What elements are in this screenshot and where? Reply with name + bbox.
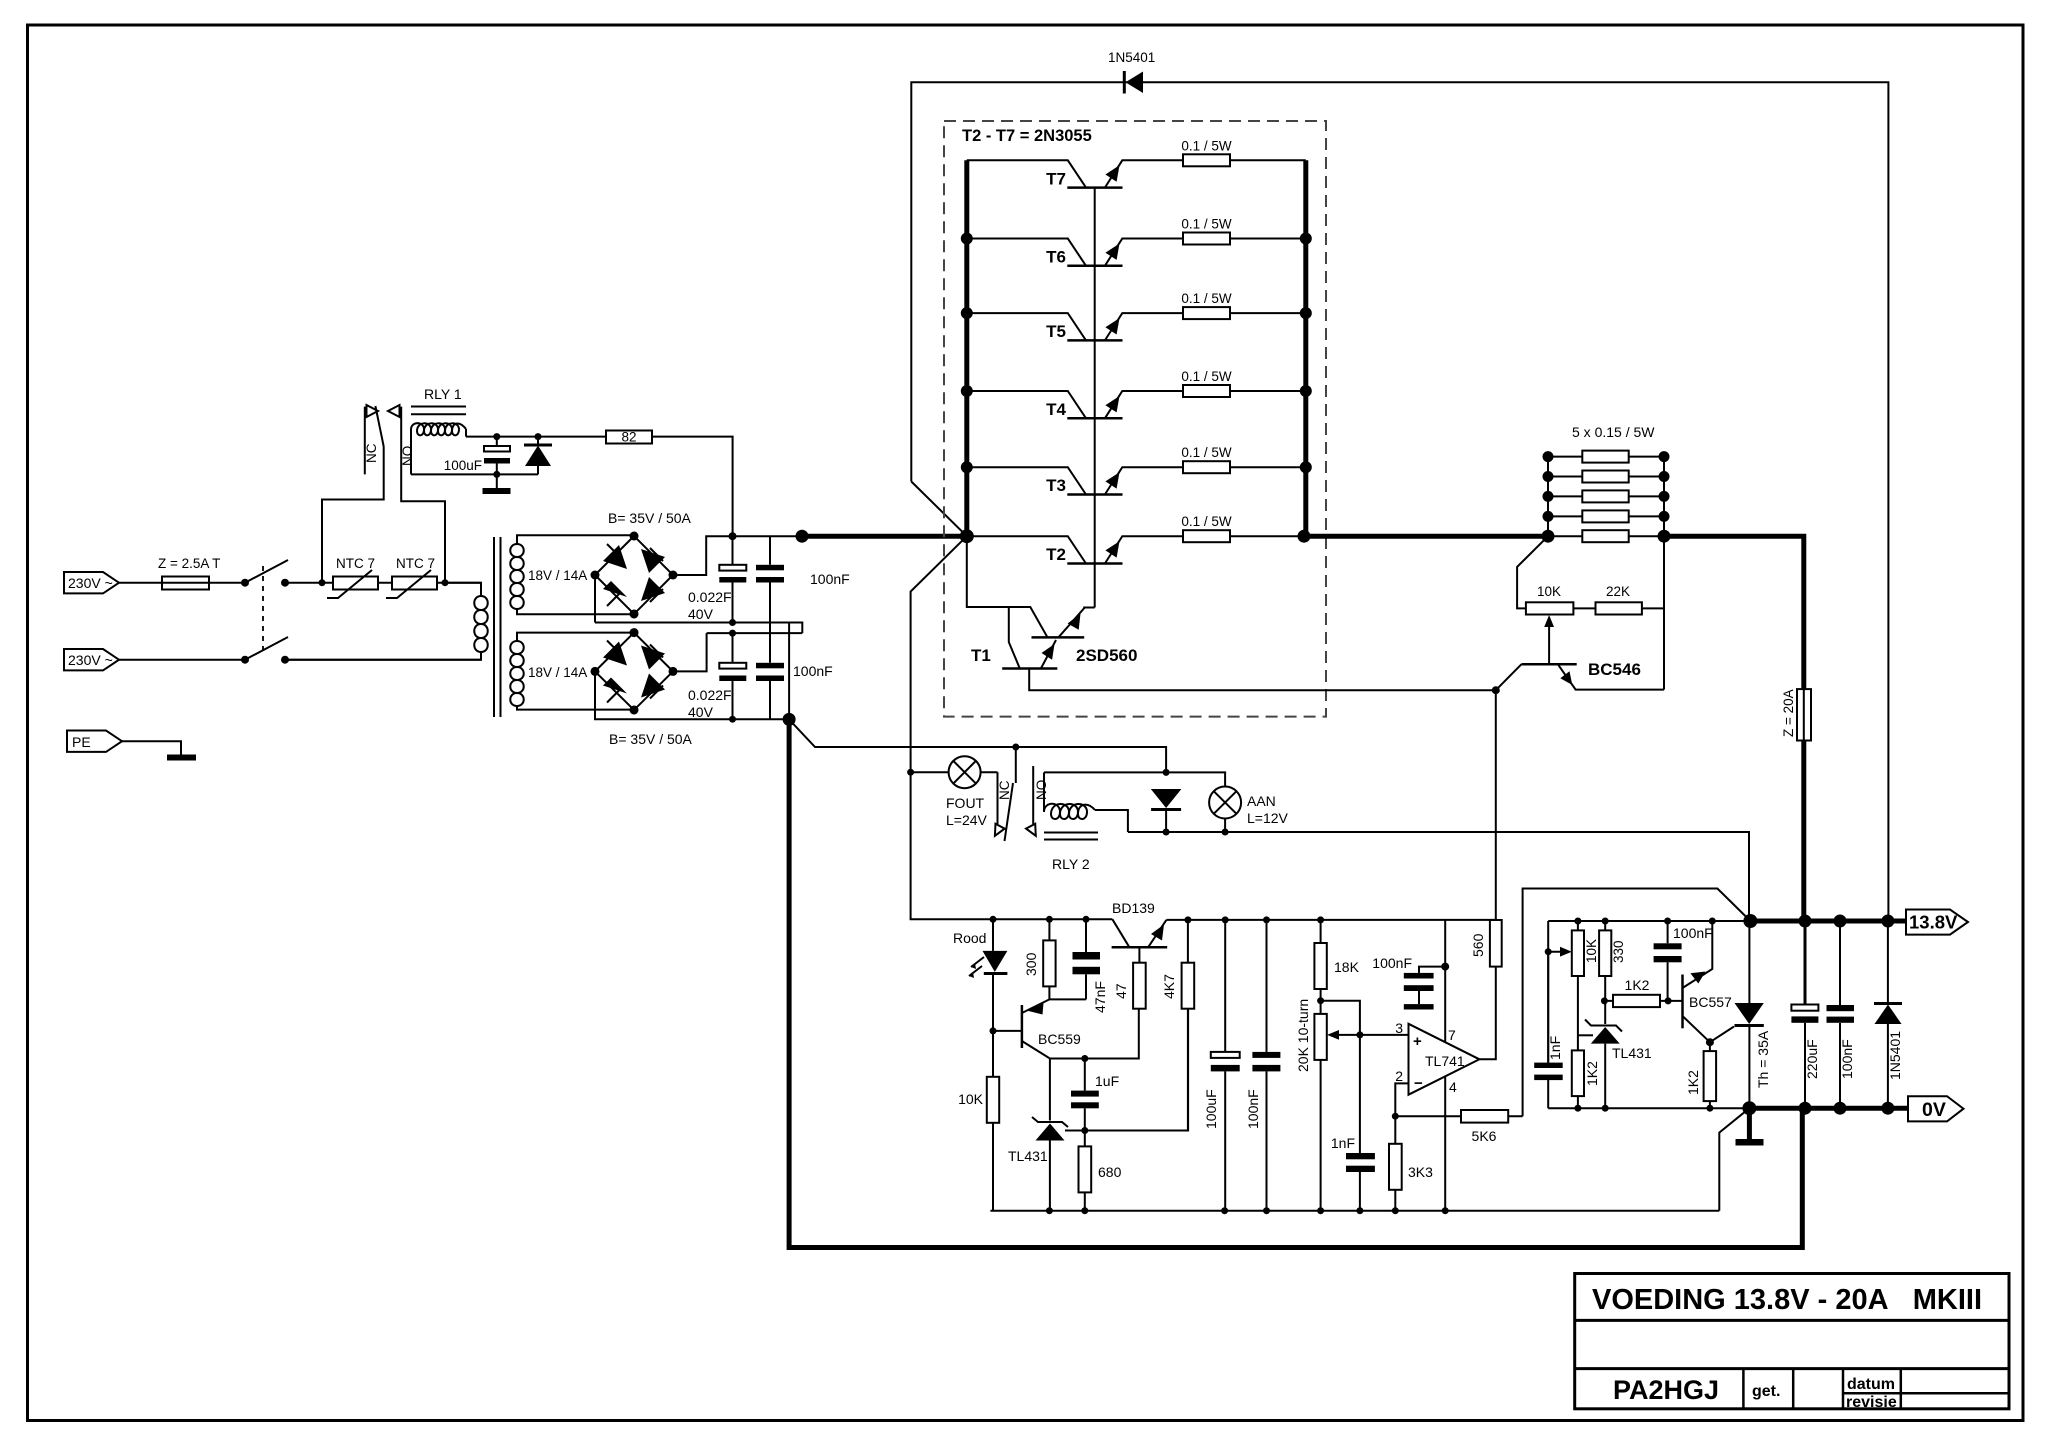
capacitor 100nF (output) bbox=[1827, 921, 1856, 1108]
wire BD139 emitter rail bbox=[1166, 919, 1495, 921]
svg-text:3K3: 3K3 bbox=[1408, 1164, 1433, 1180]
svg-text:BC559: BC559 bbox=[1038, 1031, 1081, 1047]
svg-text:0.022F: 0.022F bbox=[688, 589, 732, 605]
svg-text:T6: T6 bbox=[1046, 248, 1066, 267]
transformer primary winding bbox=[285, 583, 488, 660]
transistor T3 2N3055 bbox=[967, 467, 1183, 495]
svg-text:NC: NC bbox=[997, 780, 1012, 800]
transistor T6 2N3055 bbox=[967, 239, 1183, 267]
svg-text:0.1 / 5W: 0.1 / 5W bbox=[1181, 217, 1232, 232]
wire bridge2 minus rail bbox=[595, 671, 789, 722]
node 0V tag bbox=[1908, 1096, 1964, 1121]
wire pin4 to ground rail bbox=[1444, 1077, 1446, 1211]
svg-text:Rood: Rood bbox=[953, 930, 986, 946]
svg-text:1uF: 1uF bbox=[1095, 1073, 1119, 1089]
svg-text:RLY 2: RLY 2 bbox=[1052, 856, 1090, 872]
node LED / BC559 base junction bbox=[990, 1027, 997, 1034]
svg-text:NO: NO bbox=[400, 446, 415, 466]
resistor 3K3 bbox=[1389, 1116, 1433, 1211]
node 1K2 / 100nF junction bbox=[1665, 997, 1672, 1004]
svg-text:220uF: 220uF bbox=[1804, 1039, 1820, 1079]
wire RLY1 coil common rail bbox=[411, 471, 538, 478]
fuse Z=2.5A T bbox=[158, 556, 220, 590]
potentiometer 10K (limit) bbox=[1526, 584, 1574, 664]
svg-text:4K7: 4K7 bbox=[1161, 974, 1177, 999]
wire 0V sense line to RLY2 common bbox=[789, 719, 1166, 772]
resistor bank 5 x 0.15/5W bbox=[1542, 424, 1671, 543]
wire PE to ground bbox=[122, 741, 181, 754]
resistor 0.1/5W (T5 emitter) bbox=[1181, 291, 1305, 319]
node 0V star junction bbox=[783, 713, 796, 726]
wire collector bus (thick left) bbox=[964, 160, 969, 536]
capacitor 100nF #2 bbox=[756, 633, 833, 719]
node 230V~ L2 tag bbox=[64, 649, 119, 670]
wire thick output bus to sense bank bbox=[1304, 534, 1548, 539]
thyristor Th=35A bbox=[1710, 921, 1771, 1108]
capacitor 220uF (output) bbox=[1791, 921, 1820, 1108]
svg-text:datum: datum bbox=[1847, 1376, 1895, 1393]
capacitor 100uF (RLY1) bbox=[444, 433, 510, 488]
wire mains L1 bbox=[119, 582, 481, 584]
node BC557 collector / gate junction bbox=[1706, 1038, 1714, 1046]
svg-text:680: 680 bbox=[1098, 1164, 1122, 1180]
node raw plus junction bbox=[729, 530, 809, 543]
svg-text:FOUT: FOUT bbox=[946, 795, 985, 811]
svg-text:AAN: AAN bbox=[1247, 793, 1276, 809]
svg-text:T7: T7 bbox=[1046, 169, 1066, 188]
svg-text:L=12V: L=12V bbox=[1247, 810, 1289, 826]
svg-text:47: 47 bbox=[1113, 983, 1129, 999]
wire thick 0V bus bbox=[789, 719, 1802, 1247]
svg-text:10K: 10K bbox=[1584, 939, 1599, 963]
svg-text:0.1 / 5W: 0.1 / 5W bbox=[1181, 514, 1232, 529]
wire top protection loop bbox=[911, 82, 1888, 921]
wire current limit divider bbox=[1517, 536, 1664, 689]
diode RLY2 flyback bbox=[1151, 789, 1182, 832]
shunt regulator TL431 (left) bbox=[1008, 1059, 1068, 1211]
ground op-amp cap bbox=[1404, 1004, 1434, 1009]
wire wiper to pin3 bbox=[1356, 1031, 1408, 1038]
svg-text:230V ~: 230V ~ bbox=[68, 575, 113, 591]
svg-text:1nF: 1nF bbox=[1547, 1036, 1563, 1060]
svg-text:0.1 / 5W: 0.1 / 5W bbox=[1181, 291, 1232, 306]
node PE tag bbox=[67, 731, 122, 752]
svg-text:NC: NC bbox=[364, 443, 379, 463]
svg-text:PA2HGJ: PA2HGJ bbox=[1613, 1375, 1719, 1405]
ground PE bbox=[167, 755, 196, 761]
svg-text:0V: 0V bbox=[1922, 1099, 1946, 1121]
wire thick plus bus to pass transistors bbox=[802, 534, 967, 539]
wire thick output bus to fuse bbox=[1664, 536, 1804, 921]
wire pin7 supply bbox=[1441, 920, 1449, 1042]
transformer secondary 1 (18V/14A) bbox=[510, 535, 634, 614]
transformer TR1 core bbox=[494, 537, 501, 717]
wire mains L2 bbox=[119, 659, 481, 661]
svg-text:Z = 20A: Z = 20A bbox=[1781, 689, 1796, 737]
capacitor 1nF (right) bbox=[1534, 948, 1563, 1108]
svg-text:100uF: 100uF bbox=[444, 458, 482, 473]
capacitor 1uF bbox=[1071, 1059, 1119, 1131]
svg-text:7: 7 bbox=[1448, 1027, 1456, 1043]
svg-text:1K2: 1K2 bbox=[1625, 977, 1650, 993]
svg-text:revisie: revisie bbox=[1846, 1394, 1897, 1411]
wire bridge1 minus rail A bbox=[595, 575, 802, 633]
svg-text:18K: 18K bbox=[1334, 959, 1360, 975]
resistor 300 bbox=[1023, 916, 1056, 1000]
svg-text:TL431: TL431 bbox=[1008, 1148, 1048, 1164]
transistor BC557 bbox=[1683, 918, 1733, 1043]
svg-text:NO: NO bbox=[1034, 780, 1049, 800]
resistor 82 bbox=[606, 430, 652, 445]
svg-text:NTC 7: NTC 7 bbox=[396, 556, 435, 571]
svg-text:Z = 2.5A T: Z = 2.5A T bbox=[158, 556, 220, 571]
resistor 330 bbox=[1599, 918, 1626, 1001]
transistor T7 2N3055 bbox=[967, 160, 1183, 188]
relay RLY1 contact NO bbox=[388, 405, 415, 466]
svg-text:B= 35V / 50A: B= 35V / 50A bbox=[609, 731, 693, 747]
resistor 18K bbox=[1314, 916, 1359, 1014]
junction dots row T4 bbox=[961, 385, 1312, 397]
svg-text:10K: 10K bbox=[958, 1091, 984, 1107]
relay RLY2 contact NO and common bbox=[1005, 747, 1050, 841]
svg-text:3: 3 bbox=[1395, 1020, 1403, 1036]
svg-text:100nF: 100nF bbox=[1245, 1089, 1261, 1129]
potentiometer 20K 10-turn bbox=[1295, 999, 1360, 1211]
svg-text:+: + bbox=[1413, 1033, 1422, 1050]
capacitor 100nF (op-amp) bbox=[1372, 955, 1445, 1004]
svg-text:BD139: BD139 bbox=[1112, 900, 1155, 916]
bridge rectifier B2 35V/50A bbox=[591, 628, 693, 747]
wire bridge2 plus rail B bbox=[673, 630, 802, 672]
thermistor NTC7 #2 bbox=[386, 556, 437, 598]
svg-text:300: 300 bbox=[1023, 952, 1039, 976]
diode 1N5401 (output) bbox=[1874, 921, 1903, 1108]
svg-text:RLY 1: RLY 1 bbox=[424, 386, 462, 402]
switch S1a bbox=[241, 560, 289, 587]
svg-text:100nF: 100nF bbox=[1839, 1039, 1855, 1079]
wire bridge1 plus riser bbox=[673, 536, 802, 575]
transistor BD139 bbox=[1112, 900, 1168, 963]
node 330 / TL431 cathode junction bbox=[1601, 997, 1608, 1004]
wire diagonal into plus node bbox=[911, 482, 967, 537]
bridge rectifier B1 35V/50A bbox=[591, 510, 692, 619]
shunt regulator TL431 (right) bbox=[1578, 1001, 1652, 1112]
wire ground rail link bbox=[1719, 1108, 1749, 1211]
svg-text:1N5401: 1N5401 bbox=[1108, 50, 1155, 65]
junction dots row T5 bbox=[961, 307, 1312, 319]
wire 13.8V thick rail bbox=[1743, 914, 1908, 928]
capacitor 100nF #1 bbox=[756, 536, 850, 633]
transistor BC546 bbox=[1496, 660, 1664, 690]
svg-text:100nF: 100nF bbox=[1372, 955, 1412, 971]
title block bbox=[1575, 1274, 2009, 1412]
svg-text:22K: 22K bbox=[1606, 584, 1630, 599]
node 13.8V tag bbox=[1906, 910, 1968, 935]
relay RLY1 contact NC bbox=[364, 405, 384, 474]
capacitor 1nF (wiper) bbox=[1331, 1035, 1375, 1211]
svg-text:0.1 / 5W: 0.1 / 5W bbox=[1181, 138, 1232, 153]
transistor T5 2N3055 bbox=[967, 313, 1183, 341]
ground RLY1 cap bbox=[483, 488, 511, 494]
capacitor 0.022F 40V #2 bbox=[688, 633, 746, 720]
svg-text:1K2: 1K2 bbox=[1584, 1061, 1600, 1086]
resistor 5K6 bbox=[1395, 1110, 1522, 1144]
svg-text:330: 330 bbox=[1611, 940, 1626, 963]
transistor T2 2N3055 bbox=[967, 536, 1183, 564]
diode 1N5401 (top) bbox=[1108, 50, 1155, 94]
transistor T1 2SD560 darlington bbox=[967, 536, 1138, 668]
svg-text:T3: T3 bbox=[1046, 476, 1066, 495]
svg-text:L=24V: L=24V bbox=[946, 812, 988, 828]
svg-text:T4: T4 bbox=[1046, 400, 1066, 419]
resistor 0.1/5W (T2 emitter) bbox=[1181, 514, 1305, 542]
svg-text:100nF: 100nF bbox=[1673, 925, 1713, 941]
lamp FOUT L=24V bbox=[907, 756, 997, 828]
wire feedback from output bbox=[1523, 889, 1751, 1117]
svg-text:4: 4 bbox=[1449, 1079, 1457, 1095]
svg-text:40V: 40V bbox=[688, 704, 714, 720]
svg-text:0.1 / 5W: 0.1 / 5W bbox=[1181, 369, 1232, 384]
transistor T4 2N3055 bbox=[967, 391, 1183, 419]
node output bus at T2 emitter bbox=[1298, 530, 1311, 543]
resistor 560 bbox=[1470, 920, 1502, 967]
svg-text:2: 2 bbox=[1395, 1068, 1403, 1084]
svg-text:18V / 14A: 18V / 14A bbox=[528, 665, 587, 680]
capacitor 47nF bbox=[1049, 916, 1108, 1013]
svg-text:PE: PE bbox=[72, 734, 91, 750]
relay RLY2 coil bbox=[1044, 772, 1128, 872]
wire 13.8V sense rail bbox=[1548, 920, 1750, 922]
wire TL431 ref line bbox=[1065, 1009, 1188, 1134]
transformer secondary 2 (18V/14A) bbox=[510, 633, 634, 710]
resistor 680 bbox=[1079, 1131, 1122, 1211]
resistor 1K2 (gate) bbox=[1685, 1042, 1716, 1108]
wire AAN bottom rail to 13.8V bbox=[1128, 829, 1749, 922]
svg-text:18V / 14A: 18V / 14A bbox=[528, 568, 587, 583]
resistor 47 bbox=[1113, 963, 1146, 1009]
node T1 base / BC546 collector junction bbox=[1492, 686, 1500, 694]
potentiometer 10K (voltage set) bbox=[1548, 918, 1599, 1063]
wire common base column bbox=[1094, 188, 1096, 608]
svg-text:1nF: 1nF bbox=[1331, 1135, 1355, 1151]
relay RLY1 coil bbox=[411, 386, 466, 474]
svg-text:0.022F: 0.022F bbox=[688, 687, 732, 703]
resistor 0.1/5W (T4 emitter) bbox=[1181, 369, 1305, 397]
LED Rood bbox=[953, 916, 1007, 1031]
resistor 0.1/5W (T6 emitter) bbox=[1181, 217, 1305, 245]
svg-text:0.1 / 5W: 0.1 / 5W bbox=[1181, 445, 1232, 460]
svg-text:47nF: 47nF bbox=[1092, 981, 1108, 1013]
svg-text:Th = 35A: Th = 35A bbox=[1755, 1030, 1771, 1088]
svg-text:B= 35V / 50A: B= 35V / 50A bbox=[608, 510, 692, 526]
wire T1 base drive line bbox=[1029, 669, 1496, 691]
svg-text:5K6: 5K6 bbox=[1472, 1128, 1497, 1144]
node junction after NTC bbox=[401, 407, 448, 587]
junction dots row T3 bbox=[961, 461, 1312, 473]
thermistor NTC7 #1 bbox=[327, 556, 378, 598]
resistor 10K (LED) bbox=[958, 1031, 999, 1211]
node 230V~ L1 tag bbox=[64, 572, 119, 593]
svg-text:T5: T5 bbox=[1046, 322, 1066, 341]
node 18K / pot junction bbox=[1317, 997, 1324, 1004]
svg-text:−: − bbox=[1414, 1075, 1423, 1092]
svg-text:10K: 10K bbox=[1537, 584, 1561, 599]
wire pin2 to feedback node bbox=[1392, 1083, 1409, 1119]
wire RLY1 coil to resistor 82 bbox=[466, 437, 733, 537]
wire RLY2 top rail bbox=[1044, 769, 1225, 787]
capacitor 100nF (BC557) bbox=[1654, 918, 1713, 1001]
switch S1b bbox=[241, 637, 289, 664]
switch gang dashed link bbox=[262, 566, 264, 653]
svg-text:T2: T2 bbox=[1046, 545, 1066, 564]
relay RLY2 contact NC bbox=[990, 772, 1012, 838]
fuse Z=20A bbox=[1781, 689, 1811, 740]
svg-text:TL741: TL741 bbox=[1425, 1053, 1465, 1069]
svg-text:82: 82 bbox=[621, 430, 636, 445]
capacitor 0.022F 40V #1 bbox=[688, 536, 746, 622]
resistor 0.1/5W (T7 emitter) bbox=[1181, 138, 1305, 166]
svg-text:T2 - T7 = 2N3055: T2 - T7 = 2N3055 bbox=[962, 127, 1092, 145]
svg-text:100uF: 100uF bbox=[1203, 1089, 1219, 1129]
svg-text:230V ~: 230V ~ bbox=[68, 652, 113, 668]
svg-text:1N5401: 1N5401 bbox=[1887, 1031, 1903, 1080]
wire 0V sense rail bbox=[1548, 1105, 1749, 1112]
wire 0V thick rail bbox=[1742, 1101, 1908, 1115]
svg-text:2SD560: 2SD560 bbox=[1076, 646, 1137, 665]
svg-text:T1: T1 bbox=[971, 646, 991, 665]
op-amp TL741 bbox=[1395, 1020, 1479, 1095]
lamp AAN L=12V bbox=[1209, 787, 1288, 833]
wire BC559 collector line bbox=[1050, 1009, 1139, 1062]
capacitor 100uF (control) bbox=[1203, 916, 1240, 1210]
wire control ground rail bbox=[990, 1207, 1719, 1214]
svg-text:get.: get. bbox=[1752, 1383, 1780, 1400]
wire FOUT feed drop bbox=[911, 536, 1113, 919]
ground output bbox=[1736, 1108, 1764, 1145]
capacitor 100nF (control) bbox=[1245, 916, 1280, 1210]
svg-text:NTC 7: NTC 7 bbox=[336, 556, 375, 571]
svg-text:100nF: 100nF bbox=[810, 571, 850, 587]
node junction before NTC bbox=[319, 447, 384, 587]
node plus bus at T2 collector bbox=[960, 529, 974, 543]
svg-text:1K2: 1K2 bbox=[1685, 1070, 1701, 1095]
wire BC546 collector drop to 560 bbox=[1495, 690, 1497, 923]
junction dots row T6 bbox=[961, 233, 1312, 245]
diode RLY1 flyback bbox=[524, 433, 552, 474]
svg-text:13.8V: 13.8V bbox=[1909, 912, 1958, 933]
resistor 22K bbox=[1596, 584, 1642, 615]
svg-text:100nF: 100nF bbox=[793, 663, 833, 679]
svg-text:40V: 40V bbox=[688, 606, 714, 622]
svg-text:5 x 0.15 / 5W: 5 x 0.15 / 5W bbox=[1572, 424, 1655, 440]
svg-text:20K 10-turn: 20K 10-turn bbox=[1295, 999, 1311, 1072]
svg-text:BC557: BC557 bbox=[1689, 994, 1732, 1010]
resistor 1K2 (BC557 base) bbox=[1604, 977, 1682, 1007]
svg-text:BC546: BC546 bbox=[1588, 660, 1641, 679]
wire op-amp output to 560 bbox=[1479, 967, 1495, 1060]
resistor 1K2 (divider) bbox=[1572, 1050, 1600, 1111]
svg-text:560: 560 bbox=[1470, 933, 1486, 957]
svg-text:VOEDING 13.8V - 20A MKIII: VOEDING 13.8V - 20A MKIII bbox=[1592, 1284, 1982, 1316]
resistor 0.1/5W (T3 emitter) bbox=[1181, 445, 1305, 473]
svg-text:TL431: TL431 bbox=[1612, 1045, 1652, 1061]
transistor BC559 bbox=[993, 999, 1081, 1058]
wire emitter bus (thick right) bbox=[1303, 160, 1308, 536]
resistor 4K7 bbox=[1161, 916, 1194, 1130]
dashed box T2-T7 bbox=[944, 121, 1326, 717]
wire mid rail to 0V node bbox=[788, 623, 790, 720]
